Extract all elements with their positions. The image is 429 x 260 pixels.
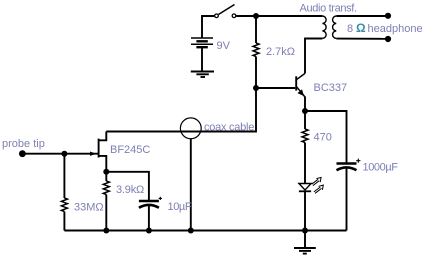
resistor R4 3.9k <box>103 172 109 231</box>
capacitor C1 10uF <box>139 201 159 231</box>
svg-text:coax cable: coax cable <box>204 122 254 134</box>
wire switch to node V+ <box>236 15 256 17</box>
label 8 ohm headphone <box>347 21 423 35</box>
node rail 3.9k <box>103 228 109 234</box>
transistor Q1 BC337 <box>296 73 305 97</box>
svg-text:probe tip: probe tip <box>2 138 45 150</box>
node V+ junction <box>253 13 259 19</box>
svg-text:headphone: headphone <box>368 23 423 35</box>
wire base <box>256 87 295 89</box>
node rail coax <box>188 228 194 234</box>
LED D1 <box>299 184 311 192</box>
probe tip terminal <box>19 150 26 157</box>
node base junction <box>253 85 259 91</box>
wire node V+ to transformer primary top <box>256 15 322 17</box>
node rail LED <box>302 228 308 234</box>
wire probe tip to gate <box>22 153 98 155</box>
coax connector circle <box>180 118 201 139</box>
wire coax shield to ground rail <box>190 139 192 231</box>
svg-text:8: 8 <box>347 23 353 35</box>
svg-text:BF245C: BF245C <box>110 144 150 156</box>
transformer T1 secondary winding <box>333 16 337 38</box>
resistor R1 2.7k <box>253 16 259 88</box>
wire node to main ground <box>304 231 306 248</box>
svg-text:BC337: BC337 <box>314 82 348 94</box>
JFET U1 BF245C gate arrow <box>90 152 96 156</box>
wire ground rail <box>64 230 346 232</box>
wire collector to transformer <box>305 39 322 74</box>
svg-text:33MΩ: 33MΩ <box>74 202 104 214</box>
svg-text:10µF: 10µF <box>168 201 192 213</box>
switch S1 <box>215 5 236 18</box>
capacitor C3 1000uF <box>337 164 357 231</box>
svg-text:3.9kΩ: 3.9kΩ <box>116 184 144 196</box>
wire source junction to 10uF <box>106 172 149 200</box>
wire drain to coax to 2.7k corner <box>106 131 256 133</box>
resistor R2 470 <box>302 111 308 184</box>
svg-text:470: 470 <box>314 132 332 144</box>
wire node to coax corner <box>200 88 256 132</box>
JFET U1 BF245C <box>99 132 107 172</box>
headphone terminal bottom <box>385 36 391 42</box>
battery B1 <box>191 38 213 47</box>
svg-text:9V: 9V <box>217 40 231 52</box>
svg-text:2.7kΩ: 2.7kΩ <box>266 46 295 58</box>
svg-text:Audio transf.: Audio transf. <box>300 3 358 15</box>
ground battery <box>191 72 214 78</box>
wire top rail battery to switch <box>202 16 214 38</box>
resistor R3 33M <box>61 154 67 231</box>
ground main <box>294 248 316 254</box>
node gate junction <box>61 151 67 157</box>
wire LED to ground rail <box>304 191 306 230</box>
svg-text:1000µF: 1000µF <box>363 162 399 174</box>
wire battery to ground <box>201 48 203 71</box>
wire secondary top to headphone <box>336 15 388 17</box>
plus sign 10uF <box>159 197 162 200</box>
node emitter junction <box>302 108 308 114</box>
wire junction to 1000uF <box>305 111 347 163</box>
headphone terminal top <box>385 13 391 19</box>
node rail 10uF <box>146 228 152 234</box>
svg-text:Ω: Ω <box>356 21 366 35</box>
wire secondary bottom to headphone <box>336 38 388 40</box>
LED arrows <box>312 177 324 193</box>
node source junction <box>103 169 109 175</box>
wire emitter to junction <box>304 97 306 112</box>
plus sign 1000uF <box>356 159 360 163</box>
transformer T1 primary winding <box>322 16 326 38</box>
